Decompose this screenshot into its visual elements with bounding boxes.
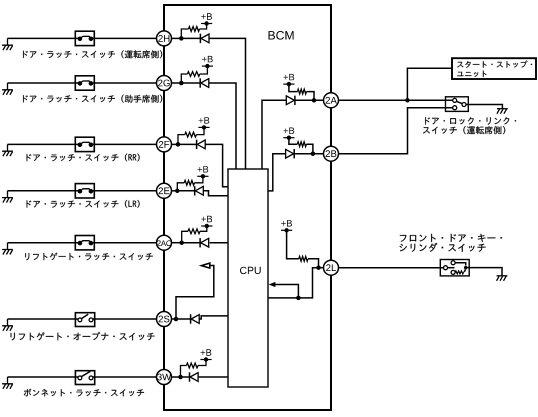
wire 2G diode to CPU top [209,83,236,169]
wire ground to switch (row 2AC) [8,242,80,244]
wire resistor to +B (row 2G) [200,66,208,74]
wire +B down to resistor (2L) [287,230,299,258]
wire pin 2F to junction [171,143,178,145]
wire ground to switch (row 2E) [8,190,80,192]
wire switch to pin 3W [93,376,157,378]
node junction at pin 3W [178,375,183,380]
wire ground to switch (row 2F) [8,143,80,145]
label lock-link switch line1 [425,117,516,125]
diode D 3W [189,372,191,381]
label key cylinder switch line1 [400,234,502,242]
wire CPU top to 2A diode [262,100,286,169]
wire resistor to +B (row 2AC) [200,226,207,231]
power +B (2L) [281,229,292,231]
diode D 2H [199,34,201,43]
resistor pull-up R 2B [297,142,306,147]
wire pin 2AC to junction [171,242,181,244]
pin 2A [324,93,339,108]
node junction at pin 2H [179,36,184,41]
wire junction to diode (row 2F) [178,143,197,145]
wire switch to pin 2H [91,37,157,39]
label ドア・ラッチ・スイッチ (運転席側) [23,50,162,58]
wire resistor to 2L junction [308,259,319,268]
wire 2B junction up to resistor [306,144,313,154]
pin 2F [157,137,172,152]
wire junction up to start-stop unit [407,68,452,100]
wire junction up to resistor (row 2AC) [182,231,188,242]
node junction 2L internal [316,265,321,270]
wire 2A diode to pin [295,99,324,101]
pin 2G [157,76,172,91]
wire resistor to +B (row 3W) [198,360,206,366]
ground (row 2S) [2,319,13,331]
BCM module box [164,5,331,410]
wire pin 2S to junction [171,318,176,320]
door lock link switch box [446,97,469,112]
power +B (row 2G) [202,65,213,67]
node junction 2A internal [312,98,317,103]
ground (row 2H) [2,38,13,50]
wire 2A junction up to resistor [306,92,314,101]
pin 2AC [157,235,172,250]
diode D 2F [196,140,198,149]
wire 3W diode to CPU left [198,376,228,378]
switch ドア・ラッチ・スイッチ (LR) [75,184,94,198]
ground (row 2AC) [2,243,13,255]
diode D 2AC [199,238,201,247]
connector arrow symbol above 2S [201,263,209,268]
switch ドア・ラッチ・スイッチ (助手席側) [75,76,94,90]
switch リフトゲート・ラッチ・スイッチ [75,236,94,250]
node junction at pin 2F [176,142,181,147]
wire 2B diode to pin [294,153,324,155]
wire ground to switch (row 2G) [8,82,80,84]
label lock-link switch line2 [423,126,505,134]
wire resistor to +B (row 2E) [195,176,203,183]
switch リフトゲート・オープナ・スイッチ [75,313,94,327]
arrowhead into CPU right edge [269,282,276,287]
wire junction up to resistor (row 2E) [177,183,184,191]
wire 2H diode to CPU top [209,38,246,169]
wire resistor to +B (row 2F) [196,127,204,134]
label リフトゲート・ラッチ・スイッチ [25,253,152,261]
pin 2S [157,312,172,327]
resistor pull-up R 2L [299,256,308,261]
ground (row 3W) [2,377,13,389]
resistor pull-up R 3W [186,363,198,368]
key-cyl upper contact [451,261,455,265]
diode D 2G [199,78,201,87]
wire switch to pin 2F [91,143,157,145]
wire switch to pin 2E [91,190,157,192]
wire pin 3W to junction [171,376,180,378]
wire lock-link switch to ground [466,105,502,109]
wire junction up to resistor (row 2G) [181,74,187,83]
label ドア・ラッチ・スイッチ (RR) [27,154,140,162]
CPU label [240,267,261,274]
pin 2B [324,146,339,161]
wire resistor to +B (row 2H) [200,24,207,30]
wire junction to pin 2L [319,267,324,269]
power +B (row 2AC) [201,225,212,227]
ground (key cylinder switch) [497,276,508,281]
node junction at pin 2E [175,189,180,194]
node junction 2A external [405,98,410,103]
resistor pull-up R 2H [189,27,200,32]
diode D 2S [190,314,192,323]
lock-link switch common contact [462,103,466,107]
wire junction to diode (row 2G) [181,82,200,84]
switch ドア・ラッチ・スイッチ (運転席側) [75,31,94,45]
switch ボンネット・ラッチ・スイッチ [75,371,94,385]
wire pin 2L to key cylinder switch [338,267,443,269]
resistor pull-up R 2A [298,89,307,94]
node junction at pin 2S [174,317,179,322]
label ドア・ラッチ・スイッチ (助手席側) [23,95,162,103]
wire 2E diode to CPU left [203,191,228,196]
pin 2E [157,183,172,198]
lock-link switch contact A [453,98,457,102]
wire resistor to +B (2B) [289,138,297,145]
wire junction up to resistor (row 3W) [181,366,187,378]
ground (row 2E) [2,191,13,203]
BCM label [269,31,294,40]
wire key cylinder switch to ground [466,268,502,276]
CPU box [228,169,268,387]
wire arrow symbol to 2S junction [176,266,214,320]
pin 2L [324,260,339,275]
label ドア・ラッチ・スイッチ (LR) [27,200,140,208]
label start-stop unit line2 [457,71,486,77]
power +B (row 2F) [198,126,209,128]
power +B (row 2H) [201,23,212,25]
resistor pull-up R 2G [187,72,199,77]
label ボンネット・ラッチ・スイッチ [24,389,144,397]
wire junction to diode (row 3W) [181,376,190,378]
diode D 2B [286,149,294,158]
wire resistor to +B (2A) [289,84,298,92]
wire 2F diode to CPU left [205,144,228,186]
label key cylinder switch line2 [400,243,486,252]
key-cyl pole stub [448,267,455,269]
lock-link switch lever [456,101,462,103]
wire pin 2E to junction [171,190,177,192]
wire pin 2B to lock-link switch [338,108,452,154]
diode D 2E [194,186,196,195]
power +B (row 3W) [200,359,211,361]
ground (row 2G) [2,83,13,95]
node junction 2B internal [311,151,316,156]
wire switch to pin 2G [91,82,157,84]
power +B (row 2E) [197,175,208,177]
lock-link switch contact B [453,106,457,110]
wire branch with arrow into CPU [274,285,299,298]
label start-stop unit line1 [457,61,532,68]
wire junction to diode (row 2E) [177,190,194,192]
wire junction up to resistor (row 2H) [181,29,188,38]
node junction at pin 2G [179,81,184,86]
pin 2H [157,31,172,46]
diode D 2A [286,96,294,105]
wire switch to pin 2S [93,318,157,320]
resistor pull-up R 2AC [188,229,200,234]
label リフトゲート・オープナ・スイッチ [11,332,155,340]
wire switch to pin 2AC [91,242,157,244]
wire 2S diode to CPU left [199,316,228,319]
power +B (2A) [283,83,294,85]
key cylinder switch box [440,260,469,276]
wire pin 2H to junction [171,37,181,39]
start-stop unit box [452,58,536,79]
wire ground to switch (row 2S) [8,318,79,320]
wire junction to diode (row 2AC) [182,242,200,244]
wire ground to switch (row 3W) [8,376,79,378]
ground (row 2F) [2,144,13,156]
wire ground to switch (row 2H) [8,37,80,39]
resistor pull-up R 2F [185,132,197,137]
switch ドア・ラッチ・スイッチ (RR) [75,137,94,151]
wire 2S junction to diode [176,318,191,320]
wire key-cyl upper contact to output [455,263,466,266]
wire 2AC diode to CPU left [210,242,228,244]
key-cyl lower contact [451,270,455,274]
wire pin 2A to lock-link switch [338,99,452,101]
wire CPU right to 2B diode [268,154,286,191]
key-cyl pole contact [444,266,448,270]
wire junction to diode (row 2H) [181,37,200,39]
pin 3W [157,370,172,385]
ground (lock-link switch) [497,109,508,114]
node junction on CPU feedback wire [296,296,301,301]
resistor in key cylinder switch [455,271,463,274]
power +B (2B) [283,137,294,139]
wire pin 2G to junction [171,82,181,84]
wire 2L junction down to CPU [268,268,319,298]
wire junction up to resistor (row 2F) [178,135,185,145]
wiper arrow in key cylinder switch [464,271,466,273]
node junction at pin 2AC [179,240,184,245]
node junction key-cyl output [464,266,467,269]
resistor pull-up R 2E [184,180,194,185]
